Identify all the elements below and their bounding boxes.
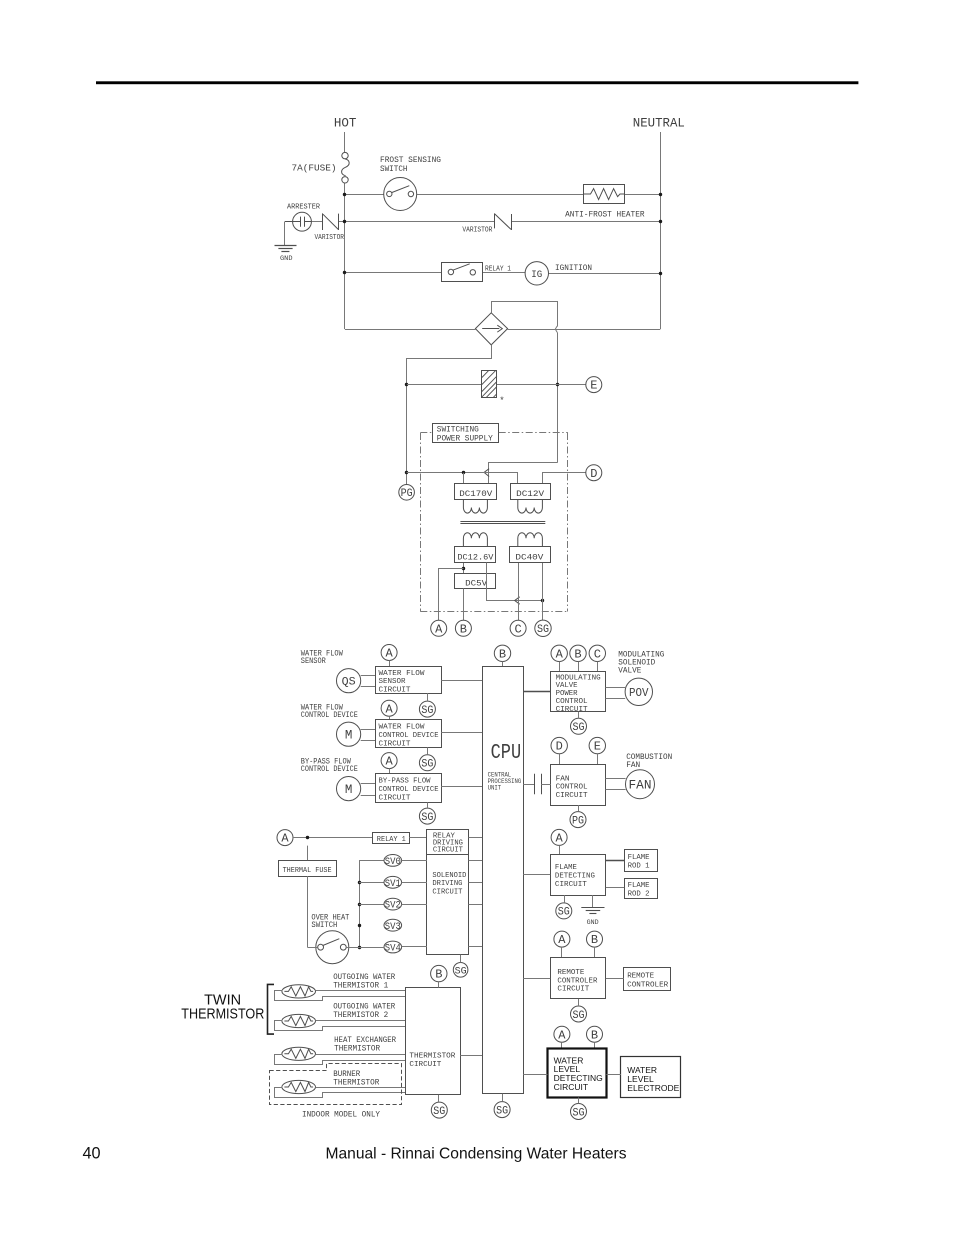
node PG (fan) <box>570 812 586 828</box>
wire DE stems <box>559 754 561 765</box>
circuit box by-pass flow control circuit <box>376 774 442 803</box>
circuit box fan control circuit <box>551 765 606 806</box>
svg-text:QS: QS <box>342 676 356 688</box>
node PG <box>399 485 415 501</box>
wire B stem <box>438 982 440 988</box>
node SG (modulating) <box>571 718 587 734</box>
wire thermistor3 top lead <box>316 1054 406 1056</box>
node SG (transformer) <box>535 620 551 636</box>
svg-text:7A(FUSE): 7A(FUSE) <box>292 163 337 174</box>
svg-text:ANTI-FROST HEATER: ANTI-FROST HEATER <box>565 210 645 219</box>
label DC12.6V <box>455 547 496 563</box>
svg-text:SENSOR: SENSOR <box>379 678 406 686</box>
cpu U1 CPU <box>483 667 524 1094</box>
node SG (flame) <box>556 903 572 919</box>
svg-text:GND: GND <box>587 919 599 926</box>
svg-text:ROD 1: ROD 1 <box>628 862 650 870</box>
svg-text:B: B <box>591 933 598 947</box>
svg-text:CIRCUIT: CIRCUIT <box>432 889 462 897</box>
node SG (cpu bottom) <box>494 1102 510 1118</box>
svg-text:SG: SG <box>421 812 433 824</box>
wire SG stem <box>427 802 429 808</box>
wire C branch <box>518 563 520 620</box>
wire down to E line <box>557 332 559 462</box>
thermistor outgoing water 1 <box>282 985 316 998</box>
switch frost sensing <box>384 178 417 211</box>
wire SG stem <box>427 747 429 754</box>
svg-text:DC12.6V: DC12.6V <box>457 553 493 562</box>
svg-text:SG: SG <box>421 759 433 771</box>
varistor 2 <box>494 213 496 228</box>
svg-text:DETECTING: DETECTING <box>555 873 595 881</box>
svg-text:THERMISTOR: THERMISTOR <box>333 1079 379 1088</box>
svg-text:SG: SG <box>558 907 570 919</box>
header rule <box>96 81 858 84</box>
svg-text:PG: PG <box>401 488 413 500</box>
node SG (water flow control) <box>419 755 435 771</box>
label DC5V <box>455 574 496 589</box>
motor M (water flow control) <box>337 722 361 746</box>
svg-text:SENSOR: SENSOR <box>301 657 326 666</box>
node E (fan) <box>589 737 605 753</box>
svg-text:DC170V: DC170V <box>459 490 492 499</box>
svg-text:VALVE: VALVE <box>618 667 641 676</box>
wire thermal fuse bottom <box>307 876 309 947</box>
wire to flame rod 2 <box>606 887 624 889</box>
svg-text:HOT: HOT <box>334 116 357 131</box>
transformer primary winding left <box>463 500 487 513</box>
wire SG stem <box>564 895 566 903</box>
svg-text:VALVE: VALVE <box>556 682 578 690</box>
svg-text:FLAME: FLAME <box>555 864 577 872</box>
ground GND (arrester) <box>284 222 286 246</box>
svg-text:FAN: FAN <box>626 761 640 770</box>
circuit box water flow control device circuit <box>376 720 442 748</box>
circuit box thermistor circuit <box>406 988 461 1095</box>
svg-text:THERMISTOR 2: THERMISTOR 2 <box>333 1011 388 1020</box>
transformer primary winding right <box>518 500 543 513</box>
electrode flame rod 2 <box>625 879 658 899</box>
node B (cpu top) <box>494 645 510 661</box>
svg-text:B: B <box>591 1028 598 1042</box>
wire A stem <box>389 661 391 667</box>
wire circuit to CPU <box>441 786 482 788</box>
svg-text:M: M <box>345 729 353 743</box>
svg-text:SG: SG <box>421 705 433 717</box>
svg-text:THERMISTOR: THERMISTOR <box>334 1044 380 1053</box>
wire crossover hop <box>555 326 557 332</box>
svg-text:D: D <box>590 467 597 481</box>
arrester <box>293 212 312 231</box>
svg-text:THERMISTOR 1: THERMISTOR 1 <box>333 981 388 990</box>
svg-text:CONTROL: CONTROL <box>556 698 588 706</box>
wire to flame rod 1 <box>606 860 624 862</box>
wire DC12.6V right branch <box>487 563 543 601</box>
svg-text:SG: SG <box>573 722 585 734</box>
svg-text:E: E <box>594 740 601 754</box>
thermistor burner <box>282 1080 316 1093</box>
wire HOT vertical <box>344 132 346 152</box>
svg-text:CONTROL DEVICE: CONTROL DEVICE <box>379 732 439 740</box>
solenoid valve SV4 <box>384 941 402 953</box>
svg-text:A: A <box>385 702 393 716</box>
wire diamond bottom tail <box>407 345 492 485</box>
svg-text:SOLENOID: SOLENOID <box>432 872 466 880</box>
svg-text:ARRESTER: ARRESTER <box>287 203 321 211</box>
svg-text:RELAY 1: RELAY 1 <box>485 266 511 274</box>
svg-text:CONTROL DEVICE: CONTROL DEVICE <box>301 765 358 774</box>
wire CPU to remote circuit <box>523 978 550 980</box>
node E <box>586 377 602 393</box>
svg-text:B: B <box>435 968 442 982</box>
svg-text:SWITCH: SWITCH <box>380 165 408 174</box>
wire SG stem <box>438 1095 440 1102</box>
wire to remote controler <box>606 978 624 980</box>
svg-text:INDOOR MODEL ONLY: INDOOR MODEL ONLY <box>302 1110 380 1119</box>
circuit box relay driving circuit <box>427 830 469 855</box>
node B (transformer) <box>455 620 471 636</box>
svg-text:CONTROL: CONTROL <box>556 784 588 792</box>
node D <box>586 465 602 481</box>
noise filter diamond <box>475 313 507 345</box>
svg-text:SV4: SV4 <box>385 943 401 955</box>
svg-text:E: E <box>590 379 597 393</box>
node B (remote) <box>587 931 603 947</box>
circuit box remote controler circuit <box>551 958 606 999</box>
wire SG stem <box>578 1098 580 1104</box>
svg-text:RELAY 1: RELAY 1 <box>377 836 406 844</box>
svg-text:REMOTE: REMOTE <box>627 972 654 980</box>
wire dash-dot boundary <box>420 432 432 434</box>
node A (by-pass) <box>381 753 397 769</box>
svg-text:THERMAL FUSE: THERMAL FUSE <box>283 867 332 875</box>
motor M (by-pass) <box>337 777 361 801</box>
svg-text:B: B <box>574 647 581 661</box>
circuit box water level detecting circuit <box>548 1049 607 1098</box>
wire thermistor4 bottom lead <box>275 1088 406 1098</box>
motor FAN <box>626 770 655 799</box>
wire thermistor3 bottom lead <box>275 1055 406 1065</box>
svg-text:ROD 2: ROD 2 <box>628 891 650 899</box>
node D (fan) <box>551 737 567 753</box>
svg-text:FLAME: FLAME <box>628 854 650 862</box>
wire SG branch <box>542 563 544 601</box>
svg-text:CIRCUIT: CIRCUIT <box>379 794 411 802</box>
svg-text:SG: SG <box>455 965 467 977</box>
svg-text:SG: SG <box>537 624 549 636</box>
node A (transformer) <box>431 620 447 636</box>
wire A stem <box>389 716 391 720</box>
svg-text:DC40V: DC40V <box>515 553 543 562</box>
wire CPU to modulating circuit <box>523 691 551 693</box>
wire thermistor1 bottom lead <box>275 991 406 1001</box>
svg-text:POV: POV <box>629 686 649 700</box>
dashed box indoor model only <box>270 1064 402 1105</box>
node B (water level) <box>587 1026 603 1042</box>
solenoid valve SV1 <box>359 882 384 884</box>
node SG (solenoid driving) <box>453 963 468 978</box>
circuit box water flow sensor circuit <box>376 667 442 694</box>
svg-text:CIRCUIT: CIRCUIT <box>409 1061 441 1069</box>
svg-text:SG: SG <box>496 1105 508 1117</box>
svg-text:CONTROL DEVICE: CONTROL DEVICE <box>379 786 439 794</box>
wire AB stems <box>561 1042 563 1049</box>
wire DC12.6V to DC5V <box>463 563 465 573</box>
svg-text:THERMISTOR: THERMISTOR <box>409 1053 456 1061</box>
bracket twin thermistor <box>268 984 275 1034</box>
wire QS to circuit <box>361 675 376 677</box>
wire PG stem <box>578 805 580 812</box>
svg-text:CIRCUIT: CIRCUIT <box>555 881 587 889</box>
svg-text:CPU: CPU <box>491 742 522 765</box>
node C (transformer) <box>510 620 526 636</box>
svg-text:WATER FLOW: WATER FLOW <box>379 724 426 732</box>
thermistor outgoing water 2 <box>282 1014 316 1027</box>
svg-text:DRIVING: DRIVING <box>432 880 462 888</box>
svg-text:C: C <box>514 622 521 636</box>
svg-text:THERMISTOR: THERMISTOR <box>181 1007 264 1023</box>
node A (water level) <box>554 1026 570 1042</box>
solenoid valve SV0 <box>359 860 384 862</box>
wire varistor bus <box>311 221 322 223</box>
wire thermistor circuit to CPU <box>460 1055 482 1057</box>
wire NEUTRAL vertical <box>660 132 662 329</box>
power supply box SWITCHING POWER SUPPLY <box>433 424 499 443</box>
wire ABC stems <box>559 662 561 672</box>
wire circuit to FAN <box>606 778 626 780</box>
node SG (remote) <box>571 1006 587 1022</box>
wire to electrode <box>606 1074 621 1076</box>
svg-text:SV0: SV0 <box>385 856 401 868</box>
svg-text:A: A <box>385 647 393 661</box>
svg-text:MODULATING: MODULATING <box>556 674 601 682</box>
wire DC170V feed <box>463 473 465 484</box>
svg-text:CIRCUIT: CIRCUIT <box>557 986 589 994</box>
node A (modulating) <box>551 645 567 661</box>
solenoid valve SV2 <box>359 904 384 906</box>
svg-text:CONTROL DEVICE: CONTROL DEVICE <box>301 711 358 720</box>
wire switch left <box>307 947 317 949</box>
svg-text:CIRCUIT: CIRCUIT <box>433 846 463 854</box>
wire thermistor2 bottom lead <box>275 1021 406 1031</box>
svg-text:VARISTOR: VARISTOR <box>315 234 345 242</box>
svg-text:CIRCUIT: CIRCUIT <box>554 1082 588 1092</box>
svg-text:SV2: SV2 <box>385 900 401 912</box>
svg-text:VARISTOR: VARISTOR <box>462 226 493 234</box>
svg-text:DC5V: DC5V <box>465 579 487 588</box>
svg-text:M: M <box>345 783 353 797</box>
svg-text:POWER SUPPLY: POWER SUPPLY <box>437 435 493 444</box>
valve POV <box>625 678 652 705</box>
svg-text:SWITCHING: SWITCHING <box>437 426 479 435</box>
device remote controler <box>624 968 671 991</box>
node A (relay feed) <box>277 830 293 846</box>
wire B branch <box>463 588 465 620</box>
thermal fuse <box>279 861 337 877</box>
wire thermistor1 top lead <box>316 990 406 992</box>
wire AB stems <box>561 947 563 957</box>
node B (modulating) <box>570 645 586 661</box>
svg-text:DC12V: DC12V <box>516 490 544 499</box>
wire CPU to flame circuit <box>523 874 550 876</box>
relay RELAY 1 (driver side) <box>373 833 410 844</box>
ground GND (flame) <box>592 895 594 907</box>
wire relay bus <box>345 272 441 274</box>
svg-text:GND: GND <box>280 255 293 262</box>
wire D line right segment <box>543 473 586 484</box>
node SG (water level) <box>571 1104 587 1120</box>
transformer secondary winding left <box>463 533 487 547</box>
svg-text:SV3: SV3 <box>385 921 401 933</box>
node SG (water flow sensor) <box>419 701 435 717</box>
solenoid valve SV3 <box>384 919 402 931</box>
node A (remote) <box>554 931 570 947</box>
wire SG stem <box>578 712 580 719</box>
svg-text:FAN: FAN <box>556 775 570 783</box>
svg-text:CIRCUIT: CIRCUIT <box>379 687 411 695</box>
node C (modulating) <box>589 645 605 661</box>
wire thermistor4 top lead <box>316 1087 406 1089</box>
svg-text:CONTROLER: CONTROLER <box>627 981 668 989</box>
wire SG stem <box>502 1094 504 1102</box>
wire CPU to water level circuit <box>523 1074 547 1076</box>
svg-text:CONTROLER: CONTROLER <box>557 977 597 985</box>
wire switch right <box>346 947 384 949</box>
node A (water flow control) <box>381 700 397 716</box>
resistor anti-frost heater <box>584 185 625 204</box>
wire bottom bus <box>345 329 475 331</box>
svg-text:A: A <box>555 832 563 846</box>
svg-text:NEUTRAL: NEUTRAL <box>633 116 685 131</box>
wire A stem <box>559 845 561 854</box>
node A (water flow sensor) <box>381 645 397 661</box>
wire SV feeder vertical <box>359 860 361 947</box>
wire branch from SPS to DC170V <box>489 463 558 484</box>
svg-text:A: A <box>281 832 289 846</box>
svg-text:UNIT: UNIT <box>488 785 502 792</box>
wire circuit to CPU <box>441 732 482 734</box>
wire circuit to CPU <box>441 680 482 682</box>
svg-text:ELECTRODE: ELECTRODE <box>627 1083 679 1093</box>
fuse 7A(FUSE) <box>342 152 348 158</box>
relay contact RELAY 1 <box>442 263 483 282</box>
circuit box solenoid driving circuit <box>427 855 469 955</box>
node B (thermistor) <box>431 965 447 981</box>
svg-text:PG: PG <box>572 815 584 827</box>
svg-text:A: A <box>385 755 393 769</box>
svg-text:SWITCH: SWITCH <box>311 921 337 930</box>
svg-text:A: A <box>435 622 443 636</box>
node SG (thermistor) <box>431 1102 447 1118</box>
svg-text:40: 40 <box>83 1145 101 1163</box>
svg-text:CIRCUIT: CIRCUIT <box>379 740 411 748</box>
svg-text:B: B <box>460 622 467 636</box>
svg-text:WATER FLOW: WATER FLOW <box>379 670 426 678</box>
wire SG stem <box>460 955 462 963</box>
switch over heat <box>316 931 349 964</box>
wire M to circuit <box>361 783 376 785</box>
transformer core <box>460 521 545 523</box>
wire M to circuit <box>361 729 376 731</box>
circuit box modulating valve power control circuit <box>551 672 606 712</box>
svg-text:C: C <box>594 647 601 661</box>
wire A branch <box>439 569 464 621</box>
svg-text:FAN: FAN <box>629 779 652 793</box>
electrode flame rod 1 <box>625 850 658 872</box>
svg-text:B: B <box>499 647 506 661</box>
thermistor heat exchanger <box>282 1047 316 1060</box>
node A (flame) <box>551 829 567 845</box>
svg-text:SV1: SV1 <box>385 878 401 890</box>
wire thermal fuse top <box>307 846 309 861</box>
wire A to relay <box>293 837 373 839</box>
svg-text:IGNITION: IGNITION <box>555 263 592 273</box>
svg-text:SG: SG <box>433 1106 445 1118</box>
svg-text:CIRCUIT: CIRCUIT <box>556 792 588 800</box>
wire circuit to POV <box>606 687 626 689</box>
node SG (by-pass) <box>419 808 435 824</box>
svg-text:*: * <box>499 396 504 406</box>
capacitor link CPU-fan <box>523 784 534 786</box>
svg-text:SG: SG <box>573 1010 585 1022</box>
svg-text:IG: IG <box>531 269 542 281</box>
wire top bus <box>345 194 384 196</box>
svg-text:FLAME: FLAME <box>628 882 650 890</box>
wire thermistor2 top lead <box>316 1020 406 1022</box>
ignition IG <box>525 262 548 285</box>
svg-text:SG: SG <box>573 1107 585 1119</box>
electrode water level electrode <box>621 1057 681 1098</box>
wire driving to CPU stubs <box>469 837 483 839</box>
wire E line <box>407 384 482 386</box>
svg-text:REMOTE: REMOTE <box>557 969 584 977</box>
svg-text:A: A <box>556 647 564 661</box>
varistor 1 <box>322 213 324 230</box>
svg-text:CIRCUIT: CIRCUIT <box>556 706 588 714</box>
svg-text:D: D <box>556 740 563 754</box>
wire D line left segment <box>407 473 518 484</box>
svg-text:BY-PASS FLOW: BY-PASS FLOW <box>379 778 431 786</box>
svg-text:A: A <box>558 933 566 947</box>
label DC40V <box>510 547 551 563</box>
wire A stem <box>389 769 391 774</box>
label DC170V <box>455 484 497 500</box>
wire SG stem <box>427 693 429 701</box>
wire diamond top loop <box>492 302 558 327</box>
svg-text:A: A <box>558 1028 566 1042</box>
wire B to CPU <box>502 662 504 667</box>
sensor QS <box>337 669 361 693</box>
transformer secondary winding right <box>518 533 543 547</box>
svg-text:FROST SENSING: FROST SENSING <box>380 156 441 165</box>
svg-text:Manual - Rinnai Condensing Wat: Manual - Rinnai Condensing Water Heaters <box>326 1145 627 1162</box>
circuit box flame detecting circuit <box>551 855 606 896</box>
hatched fusible link <box>482 371 497 398</box>
label DC12V <box>511 484 551 500</box>
wire SG stem <box>578 999 580 1006</box>
svg-text:POWER: POWER <box>556 690 578 698</box>
wire relay to driving circuit <box>409 837 427 839</box>
